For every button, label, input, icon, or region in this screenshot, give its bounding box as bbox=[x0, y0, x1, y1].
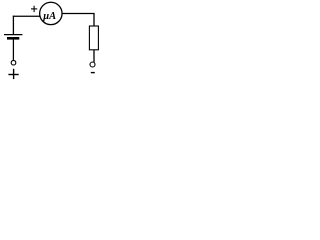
resistor R (photocell load) bbox=[89, 26, 98, 50]
wire top-left rail bbox=[13, 15, 42, 17]
svg-text:μA: μA bbox=[42, 11, 56, 22]
wire top-right rail bbox=[62, 13, 95, 15]
wire right vertical (bottom) bbox=[93, 50, 95, 63]
microammeter M1 bbox=[40, 2, 62, 24]
wire left vertical (bottom) bbox=[12, 40, 14, 61]
battery B1 negative plate (short thick) bbox=[7, 37, 19, 40]
plus label (bottom-left) bbox=[8, 69, 18, 79]
minus label bbox=[91, 72, 95, 74]
plus polarity label (top, near meter) bbox=[31, 6, 37, 12]
terminal (left, positive) bbox=[11, 60, 16, 65]
terminal (right, negative) bbox=[90, 62, 95, 67]
wire right vertical (top) bbox=[93, 14, 95, 27]
wire left vertical (top) bbox=[12, 16, 14, 35]
battery B1 positive plate (long thin) bbox=[4, 34, 22, 36]
